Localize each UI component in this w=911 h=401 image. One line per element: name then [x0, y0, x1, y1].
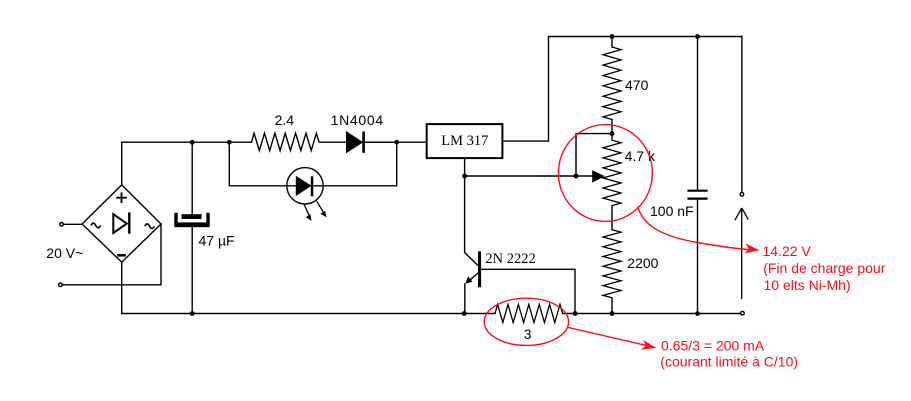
junction top rail at 47uF — [190, 140, 195, 145]
wire output plus drop to terminal — [741, 37, 743, 192]
svg-text:14.22 V: 14.22 V — [763, 243, 812, 259]
bridge tilde right — [145, 224, 155, 229]
LED D2 wire through circle — [287, 185, 323, 187]
LED D2 circle — [287, 168, 323, 204]
junction top-right rail at 470 — [610, 34, 615, 39]
regulator U1 LM317 box — [427, 124, 503, 158]
wire bottom rail left section — [122, 262, 495, 313]
wire pot bottom to 2200 top — [611, 206, 613, 230]
bridge minus sign — [117, 254, 126, 257]
wire LED branch — [229, 142, 396, 186]
LED D2 emission arrow 2 — [317, 201, 327, 217]
bridge tilde left — [91, 223, 101, 228]
bridge rectifier diamond — [82, 185, 161, 262]
wire bridge top vertex to top rail — [121, 142, 123, 185]
resistor R1 2.4 — [252, 133, 426, 150]
svg-text:20 V~: 20 V~ — [46, 245, 83, 261]
wire LM317 output to top-right rail — [503, 37, 742, 142]
junction bottom rail at 100nF — [695, 311, 700, 316]
svg-text:2.4: 2.4 — [275, 112, 295, 128]
diode D1 1N4004 triangle — [347, 132, 363, 153]
bridge diode cathode bar — [128, 212, 130, 233]
wire 47uF branch lower — [191, 227, 193, 314]
wire 100nF branch lower — [697, 199, 699, 313]
svg-text:2N 2222: 2N 2222 — [485, 251, 535, 267]
junction top-right rail at 100nF — [695, 34, 700, 39]
red annotation line to 0.65/3 — [568, 327, 648, 345]
bridge diode triangle — [113, 214, 127, 233]
svg-text:470: 470 — [625, 77, 649, 93]
svg-text:(Fin de charge pour: (Fin de charge pour — [763, 260, 886, 276]
svg-text:47 µF: 47 µF — [199, 232, 235, 248]
wire 100nF branch upper — [697, 37, 699, 191]
junction top rail at diode output — [394, 140, 399, 145]
svg-text:LM 317: LM 317 — [441, 133, 488, 149]
junction bottom rail at 47uF — [190, 311, 195, 316]
LED D2 cathode bar — [311, 176, 314, 196]
red annotation curve to 14.22V — [638, 207, 752, 250]
output voltage arrow — [735, 208, 748, 299]
wire 470 top lead from rail — [611, 37, 613, 48]
capacitor C1 47uF plus plate — [182, 214, 202, 219]
svg-text:(courant limité à C/10): (courant limité à C/10) — [660, 353, 798, 369]
diode D1 cathode bar — [362, 132, 365, 153]
bridge plus sign — [116, 192, 127, 203]
output terminal plus — [740, 193, 744, 197]
output terminal minus — [741, 311, 745, 315]
transistor Q1 collector lead — [465, 253, 478, 266]
potentiometer P1 4.7k body — [603, 140, 621, 205]
junction bottom rail at base drop — [573, 311, 578, 316]
svg-text:3: 3 — [524, 326, 532, 342]
capacitor C1 47uF cup plate — [176, 213, 208, 223]
red ellipse around potentiometer — [558, 125, 652, 222]
transistor Q1 emitter lead — [468, 273, 479, 282]
wire 470 bottom lead to pot junction — [611, 120, 613, 141]
red arrowhead 0.65/3 — [641, 340, 656, 350]
wire top rail left (bridge to LM317 input) — [122, 141, 252, 143]
LED D2 triangle — [296, 177, 310, 196]
transistor Q1 emitter arrowhead — [465, 276, 472, 283]
resistor R3 2200 — [603, 230, 621, 298]
red ellipse around 3 ohm resistor — [484, 298, 568, 345]
wire input top terminal to bridge — [64, 223, 82, 225]
wire 47uF branch upper — [191, 142, 193, 214]
input terminal bottom — [59, 283, 63, 287]
junction bottom rail at emitter — [462, 311, 467, 316]
svg-text:10 elts Ni-Mh): 10 elts Ni-Mh) — [764, 277, 851, 293]
svg-text:100 nF: 100 nF — [650, 203, 694, 219]
wire diode to LM317 node — [365, 141, 397, 143]
input terminal top — [60, 223, 64, 227]
svg-text:2200: 2200 — [627, 255, 658, 271]
potentiometer P1 wiper arrowhead — [592, 170, 605, 183]
junction wiper node — [574, 174, 579, 179]
wire adj down to collector — [464, 176, 466, 253]
wire transistor emitter to rail — [464, 284, 466, 314]
svg-text:0.65/3 = 200 mA: 0.65/3 = 200 mA — [661, 338, 765, 354]
wire wiper up and over to pot top — [576, 134, 612, 176]
wire transistor base to rail — [481, 269, 575, 313]
wire bottom rail right section — [563, 313, 740, 315]
junction top rail at LED branch — [227, 140, 232, 145]
resistor R4 3 ohm — [495, 305, 563, 323]
LED D2 emission arrow 1 — [304, 204, 312, 221]
red arrowhead 14.22V — [744, 244, 759, 254]
transistor Q1 base bar — [478, 251, 481, 287]
wire adj horizontal to wiper — [465, 175, 592, 177]
junction pot top node — [610, 131, 615, 136]
resistor R2 470 — [603, 47, 621, 120]
junction bottom rail at 2200 — [610, 311, 615, 316]
junction adj node — [462, 174, 467, 179]
wire LM317 adj down — [464, 159, 466, 176]
capacitor C2 100nF plates — [687, 191, 707, 199]
svg-text:1N4004: 1N4004 — [331, 112, 384, 128]
wire 2200 bottom lead to rail — [611, 298, 613, 314]
wire input bottom terminal to bridge right vertex — [63, 224, 161, 285]
